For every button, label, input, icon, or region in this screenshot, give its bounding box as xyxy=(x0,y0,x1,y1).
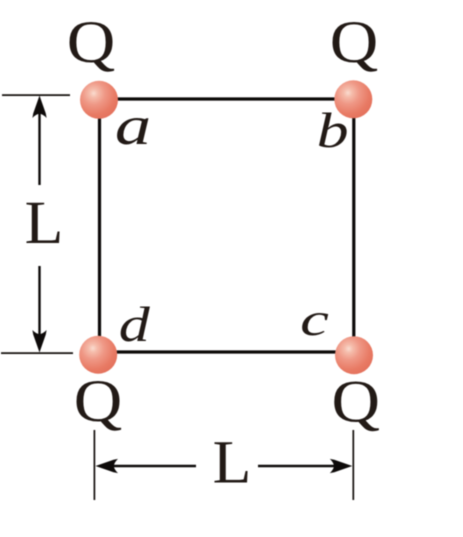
svg-text:Q: Q xyxy=(74,367,123,434)
svg-text:c: c xyxy=(300,294,329,345)
svg-text:Q: Q xyxy=(332,368,381,435)
svg-text:a: a xyxy=(115,95,151,156)
svg-text:b: b xyxy=(317,103,349,158)
svg-text:L: L xyxy=(25,190,64,257)
svg-text:L: L xyxy=(213,430,252,497)
svg-text:Q: Q xyxy=(67,8,116,75)
svg-text:d: d xyxy=(119,297,151,352)
svg-text:Q: Q xyxy=(330,8,379,75)
